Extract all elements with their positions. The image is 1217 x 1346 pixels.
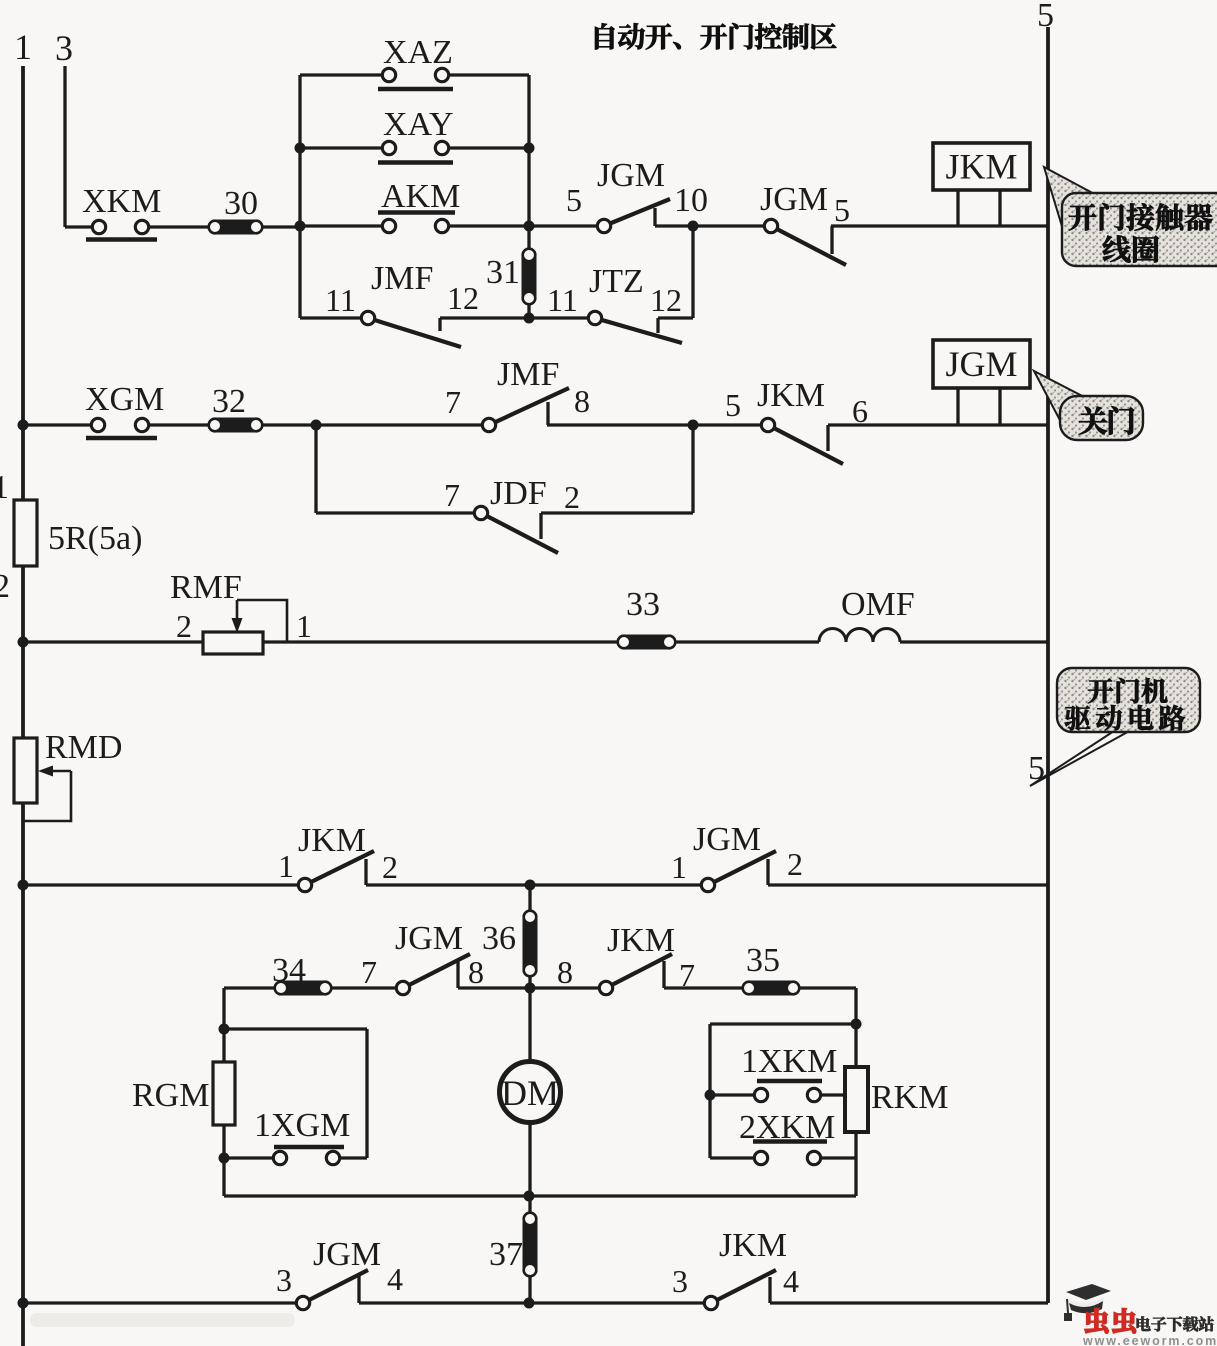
wire JTZ to riser xyxy=(658,316,693,319)
svg-text:11: 11 xyxy=(325,282,356,318)
svg-text:XAY: XAY xyxy=(383,106,454,143)
svg-text:JGM: JGM xyxy=(313,1236,381,1273)
svg-text:5: 5 xyxy=(834,192,850,228)
rheostat RMD on bus 1 xyxy=(14,738,37,803)
svg-text:2: 2 xyxy=(787,846,803,882)
switch JGM contact 3-4 (blade up) xyxy=(296,1270,368,1310)
resistor 32 xyxy=(208,418,263,433)
logo 电子下载站 xyxy=(1137,1316,1214,1331)
wire 1XGM right xyxy=(339,1156,367,1159)
svg-text:31: 31 xyxy=(486,254,520,291)
RMF wiper arrow xyxy=(232,600,288,642)
svg-text:1: 1 xyxy=(671,849,687,885)
riser JDF to row2 xyxy=(691,425,694,513)
wire 34 to JGM row5 xyxy=(332,986,396,989)
junction 1XKM left xyxy=(705,1090,716,1101)
switch JMF contact 7-8 (blade up) xyxy=(482,388,569,432)
svg-text:1: 1 xyxy=(0,469,9,506)
callout text 关门 xyxy=(1079,406,1134,434)
svg-text:5: 5 xyxy=(566,182,582,218)
svg-text:30: 30 xyxy=(224,185,258,222)
JGM coil leg left xyxy=(956,388,959,425)
svg-text:XAZ: XAZ xyxy=(383,34,453,71)
JKM coil leg right xyxy=(998,190,1001,226)
svg-text:7: 7 xyxy=(444,477,460,513)
wire JKM to resistor 35 xyxy=(664,986,742,989)
callout balloon: door-opener drive circuit xyxy=(1030,668,1200,786)
svg-text:www.eeworm.com: www.eeworm.com xyxy=(1082,1334,1217,1346)
callout balloon: door-open contactor coil xyxy=(1044,167,1217,266)
svg-text:XKM: XKM xyxy=(82,183,161,220)
wire RGM column to resistor 34 xyxy=(224,986,274,989)
wire net3 to XKM xyxy=(65,225,92,228)
motor bottom wire xyxy=(224,1194,856,1197)
svg-text:1XGM: 1XGM xyxy=(254,1107,350,1144)
XKM contacts left riser xyxy=(708,1024,711,1158)
svg-text:1: 1 xyxy=(296,608,312,644)
inductor OMF xyxy=(819,629,900,643)
wire to JMF 11 xyxy=(300,316,361,319)
wire node to JMF switch xyxy=(316,423,482,426)
wire DM to bottom xyxy=(528,1123,531,1196)
svg-text:JKM: JKM xyxy=(719,1227,787,1264)
wire bus1 to JKM row4 xyxy=(23,883,298,886)
svg-text:7: 7 xyxy=(361,954,377,990)
svg-text:8: 8 xyxy=(557,954,573,990)
svg-text:7: 7 xyxy=(445,384,461,420)
JGM coil leg right xyxy=(998,388,1001,425)
wire 35 to RKM column xyxy=(800,986,856,989)
wire JDF to riser xyxy=(541,511,693,514)
svg-text:JKM: JKM xyxy=(757,377,825,414)
switch JGM contact (blade down) to JKM coil xyxy=(764,219,846,265)
svg-text:2: 2 xyxy=(382,849,398,885)
junction bus1 row3 xyxy=(18,637,29,648)
junction bus1 row6 xyxy=(18,1298,29,1309)
svg-text:12: 12 xyxy=(650,282,682,318)
wire resistor 37 to row6 xyxy=(528,1277,531,1303)
svg-text:11: 11 xyxy=(547,282,578,318)
wire row5 to DM xyxy=(528,988,531,1061)
svg-text:JGM: JGM xyxy=(693,821,761,858)
svg-text:3: 3 xyxy=(276,1262,292,1298)
wire RKM top link xyxy=(710,1022,856,1025)
riser to JDF xyxy=(314,425,317,513)
callout text 开门机 xyxy=(1088,678,1168,704)
wire resistor 30 to node xyxy=(263,225,300,228)
lead net 3 vertical xyxy=(63,66,66,227)
svg-text:37: 37 xyxy=(489,1236,523,1273)
wire bus1 to JGM row6 xyxy=(23,1301,296,1304)
contact 2XKM (NC) xyxy=(753,1142,827,1165)
svg-text:2: 2 xyxy=(176,608,192,644)
wire bus1 to RMF xyxy=(23,640,203,643)
resistor RKM xyxy=(845,1067,868,1132)
callout balloon: door close xyxy=(1034,371,1143,440)
wire node to resistor 36 xyxy=(528,885,531,910)
switch JKM contact 8-7 (blade up) xyxy=(599,954,672,995)
wire JGM row4 to bus 5 xyxy=(768,883,1048,886)
contact XAZ xyxy=(378,68,453,89)
switch JGM contact 5-10 (NO) xyxy=(597,199,670,233)
svg-text:10: 10 xyxy=(674,182,708,219)
wire RMF to resistor 33 xyxy=(263,640,617,643)
svg-text:JMF: JMF xyxy=(497,356,559,393)
svg-text:AKM: AKM xyxy=(381,178,460,215)
wire to JKM coil legs and bus 5 xyxy=(831,224,1048,227)
svg-text:JDF: JDF xyxy=(490,475,547,512)
junction node 31 bottom xyxy=(524,313,535,324)
svg-text:DM: DM xyxy=(501,1073,559,1113)
wire RGM top link xyxy=(224,1027,367,1030)
relay coil JGM (door-close contactor) xyxy=(933,340,1030,388)
contact AKM (NC) xyxy=(378,213,455,233)
motor DM xyxy=(500,1062,561,1123)
RKM column upper vertical xyxy=(854,988,857,1067)
title 自动开、开门控制区 xyxy=(595,23,836,49)
svg-text:JKM: JKM xyxy=(945,147,1017,187)
wire JMF to JKM switch xyxy=(547,423,761,426)
resistor 31 xyxy=(522,248,537,305)
wire JGM to JKM row6 xyxy=(359,1301,704,1304)
junction node JDF rejoin xyxy=(688,420,699,431)
svg-text:34: 34 xyxy=(272,952,306,989)
callout text 驱动电路 xyxy=(1065,705,1185,730)
svg-text:12: 12 xyxy=(447,280,479,316)
switch JKM contact 1-2 (blade up) xyxy=(298,851,374,892)
wire OMF to bus 5 xyxy=(900,640,1048,643)
wire 2XKM right xyxy=(820,1156,856,1159)
switch JGM contact 1-2 (blade up) xyxy=(701,851,776,892)
junction RGM top xyxy=(219,1024,230,1035)
svg-text:JMF: JMF xyxy=(371,260,433,297)
1XGM right riser xyxy=(365,1029,368,1158)
junction bus1 row4 xyxy=(18,880,29,891)
limit switch contact XKM xyxy=(86,220,157,239)
svg-text:RKM: RKM xyxy=(871,1079,948,1116)
wire 33 to OMF xyxy=(676,640,819,643)
wire to XAZ left xyxy=(300,73,383,76)
junction bus1 row2 xyxy=(18,420,29,431)
svg-text:1: 1 xyxy=(14,27,32,67)
relay coil JKM (door-open contactor) xyxy=(933,143,1030,190)
wire XKM to resistor 30 xyxy=(148,225,208,228)
junction node XAY left xyxy=(295,143,306,154)
logo 虫虫 red xyxy=(1085,1308,1136,1333)
svg-text:3: 3 xyxy=(672,1263,688,1299)
switch JDF contact 7-2 (blade down) xyxy=(474,506,558,553)
wire JGM to JKM row5 xyxy=(458,986,599,989)
svg-text:JGM: JGM xyxy=(945,344,1017,384)
callout text 开门接触器 xyxy=(1069,203,1212,230)
wire to XAY left xyxy=(300,146,383,149)
svg-text:2: 2 xyxy=(0,568,10,605)
callout text 线圈 xyxy=(1103,235,1159,262)
svg-text:2: 2 xyxy=(564,479,580,515)
wire to 2XKM left xyxy=(710,1156,754,1159)
resistor 37 xyxy=(523,1212,538,1277)
svg-text:8: 8 xyxy=(468,954,484,990)
wire resistor 36 to row5 xyxy=(528,977,531,988)
switch JGM contact 7-8 (blade up) xyxy=(396,954,470,995)
wire to 1XGM left xyxy=(224,1156,274,1159)
wire to JGM coil legs and bus 5 xyxy=(828,423,1048,426)
svg-text:5: 5 xyxy=(725,387,741,423)
junction node row1 left xyxy=(295,221,306,232)
svg-text:RMD: RMD xyxy=(45,729,122,766)
RMD wiper arrow xyxy=(23,766,71,822)
RGM column vertical xyxy=(222,988,225,1196)
RKM lower vertical xyxy=(854,1132,857,1196)
wire to 1XKM left xyxy=(710,1093,754,1096)
svg-text:36: 36 xyxy=(482,920,516,957)
wire XGM to resistor 32 xyxy=(148,423,208,426)
wire JGM to JGM xyxy=(655,224,764,227)
wire to AKM left xyxy=(300,224,383,227)
junction RKM top xyxy=(851,1019,862,1030)
resistor RGM xyxy=(213,1062,235,1125)
rheostat RMF xyxy=(203,632,263,654)
svg-text:RMF: RMF xyxy=(170,569,242,606)
junction node center column row5 xyxy=(525,983,536,994)
riser JTZ branch to node 10 xyxy=(691,226,694,318)
junction node center column xyxy=(525,880,536,891)
svg-text:1XKM: 1XKM xyxy=(741,1043,837,1080)
wire JKM row6 to bus 5 xyxy=(770,1301,1048,1304)
resistor 33 xyxy=(617,635,676,650)
svg-text:33: 33 xyxy=(626,586,660,623)
resistor 35 xyxy=(742,981,800,996)
bus net 1 (left vertical) xyxy=(21,66,25,1346)
svg-text:JGM: JGM xyxy=(395,920,463,957)
svg-text:4: 4 xyxy=(783,1263,799,1299)
resistor 30 xyxy=(208,220,263,235)
svg-text:JKM: JKM xyxy=(298,822,366,859)
logo graduation cap xyxy=(1064,1284,1111,1321)
svg-text:4: 4 xyxy=(387,1261,403,1297)
JKM coil leg left xyxy=(956,190,959,226)
svg-text:5: 5 xyxy=(1037,0,1054,34)
svg-text:5R(5a): 5R(5a) xyxy=(48,520,142,557)
svg-text:3: 3 xyxy=(55,28,73,68)
right branch vertical upper xyxy=(527,75,530,248)
svg-text:JTZ: JTZ xyxy=(589,263,644,300)
junction node row1 right xyxy=(524,221,535,232)
wire XAZ right xyxy=(448,73,529,76)
switch JKM contact 3-4 (blade up) xyxy=(704,1270,776,1310)
wire AKM to JGM switch xyxy=(448,224,598,227)
resistor 36 xyxy=(523,910,538,977)
junction node 37 bottom xyxy=(524,1298,535,1309)
svg-text:JKM: JKM xyxy=(607,922,675,959)
contact 1XKM (NC) xyxy=(754,1081,822,1102)
wire to JDF switch xyxy=(316,511,474,514)
switch JMF contact 11-12 (blade down) xyxy=(361,311,461,347)
svg-text:RGM: RGM xyxy=(132,1077,209,1114)
svg-text:XGM: XGM xyxy=(85,381,164,418)
junction RGM bottom xyxy=(219,1153,230,1164)
svg-text:8: 8 xyxy=(574,383,590,419)
svg-text:35: 35 xyxy=(746,942,780,979)
wire XAY right xyxy=(448,146,529,149)
wire 1XKM right to RKM xyxy=(820,1093,845,1096)
switch JKM contact 5-6 (blade down) xyxy=(761,418,843,464)
svg-text:32: 32 xyxy=(212,383,246,420)
switch JTZ contact 11-12 (blade down) xyxy=(588,311,682,343)
resistor 5R(5a) on bus 1 xyxy=(14,500,37,566)
contact XAY xyxy=(378,141,453,162)
bus net 5 (right vertical) xyxy=(1046,27,1050,1303)
svg-text:JGM: JGM xyxy=(597,157,665,194)
limit switch contact XGM xyxy=(86,418,157,438)
wire bus1 to XGM xyxy=(23,423,91,426)
wire resistor 32 to node xyxy=(263,423,316,426)
junction node JDF branch xyxy=(311,420,322,431)
wire resistor 31 lower stub xyxy=(527,305,530,318)
svg-text:5: 5 xyxy=(1028,750,1045,787)
left branch vertical xyxy=(298,75,301,318)
wire to resistor 37 xyxy=(528,1196,531,1212)
svg-text:JGM: JGM xyxy=(760,181,828,218)
svg-text:1: 1 xyxy=(278,848,294,884)
junction DM bottom xyxy=(524,1191,535,1202)
resistor 34 xyxy=(274,981,332,996)
junction node 10 xyxy=(688,221,699,232)
svg-text:OMF: OMF xyxy=(841,586,915,623)
junction node XAY right xyxy=(524,143,535,154)
contact 1XGM (NC) xyxy=(273,1147,344,1165)
wire JKM to JGM row4 xyxy=(366,883,701,886)
wire JMF to JTZ xyxy=(440,316,588,319)
svg-text:2XKM: 2XKM xyxy=(739,1109,835,1146)
